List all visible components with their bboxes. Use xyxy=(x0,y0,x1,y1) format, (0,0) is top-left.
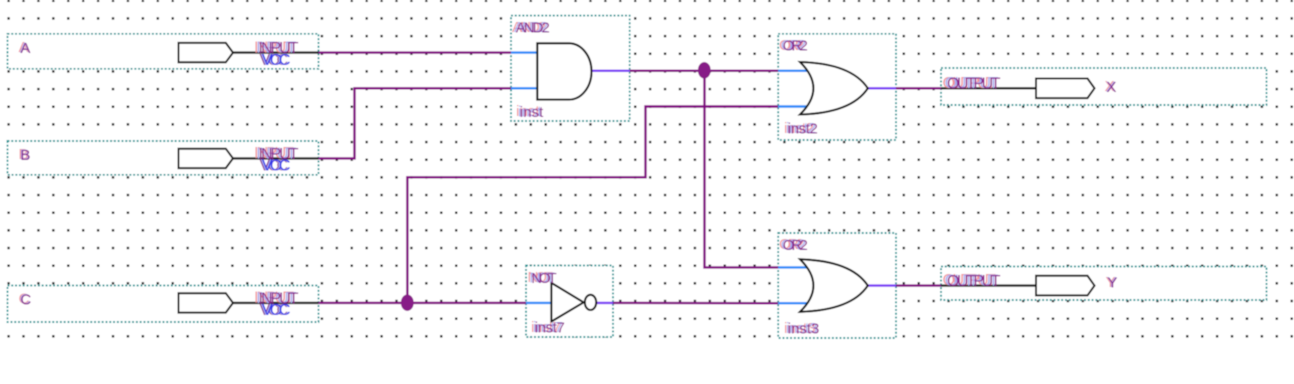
OR2 inst2 input stub upper (blue) xyxy=(778,70,809,72)
selection box output Y xyxy=(941,267,1267,301)
selection box input C xyxy=(8,286,319,323)
wire branch from C junction up to OR2 inst2 lower input xyxy=(407,107,778,303)
svg-text:OUTPUT: OUTPUT xyxy=(947,76,1001,93)
wire net C: input C to NOT input xyxy=(319,302,527,304)
NOT gate body xyxy=(551,283,583,322)
svg-text:inst: inst xyxy=(520,104,544,121)
output pin X arrow xyxy=(1036,79,1095,99)
AND2 input stub upper (blue) xyxy=(511,51,537,53)
AND2 output stub (violet) xyxy=(592,70,630,72)
NOT bubble xyxy=(585,295,596,310)
svg-text:AND2: AND2 xyxy=(516,20,550,37)
output pin Y arrow xyxy=(1036,276,1095,296)
input pin C arrow xyxy=(179,293,234,312)
OR2 inst2 gate body xyxy=(800,62,868,115)
wire net AND output to OR2 inst2 upper input xyxy=(630,70,779,72)
wire branch from junction down to OR2 inst3 upper input xyxy=(705,71,779,268)
selection box AND2 inst xyxy=(511,16,630,121)
OR2 inst3 input stub lower (blue) xyxy=(778,302,809,304)
input pin C symbol line xyxy=(233,302,319,304)
svg-text:B: B xyxy=(21,147,31,164)
selection box input B xyxy=(8,141,319,175)
selection box output X xyxy=(941,68,1267,105)
wire net B: input B to AND2 lower input xyxy=(319,88,512,158)
input pin B symbol line xyxy=(233,157,319,159)
svg-text:VCC: VCC xyxy=(262,302,291,319)
selection box OR2 inst2 xyxy=(778,34,896,140)
svg-text:OR2: OR2 xyxy=(783,38,808,55)
wire NOT output to OR2 inst3 lower input xyxy=(613,302,778,305)
wire OR2 inst2 output to output pin X xyxy=(896,87,941,89)
svg-text:OUTPUT: OUTPUT xyxy=(947,273,1001,290)
svg-text:A: A xyxy=(21,40,31,57)
wire OR2 inst3 output to output pin Y xyxy=(896,284,941,286)
wire net A: input A to AND2 upper input xyxy=(319,51,512,53)
svg-text:X: X xyxy=(1107,79,1117,96)
OR2 inst2 input stub lower (blue) xyxy=(778,105,809,107)
junction dot on C net xyxy=(401,295,414,311)
input pin B arrow xyxy=(179,149,234,168)
NOT output stub (violet) xyxy=(597,302,613,304)
OR2 inst3 gate body xyxy=(800,259,868,312)
AND2 input stub lower (blue) xyxy=(511,87,537,89)
svg-text:OR2: OR2 xyxy=(783,237,808,254)
NOT input stub (blue) xyxy=(526,302,551,304)
OR2 inst3 input stub upper (blue) xyxy=(778,266,809,268)
OR2 inst2 output stub (violet) xyxy=(868,87,896,89)
input pin A symbol line xyxy=(233,51,319,53)
svg-text:inst7: inst7 xyxy=(535,320,565,337)
AND2 gate body xyxy=(537,43,591,99)
selection box input A xyxy=(8,34,319,69)
OR2 inst3 output stub (violet) xyxy=(868,284,896,286)
svg-text:Y: Y xyxy=(1108,275,1118,292)
svg-text:VCC: VCC xyxy=(262,52,291,69)
svg-text:inst2: inst2 xyxy=(788,121,818,138)
selection box OR2 inst3 xyxy=(778,233,896,338)
svg-text:inst3: inst3 xyxy=(788,321,820,338)
svg-text:VCC: VCC xyxy=(262,158,291,175)
input pin A arrow xyxy=(179,43,234,62)
svg-text:NOT: NOT xyxy=(531,270,557,287)
output pin X symbol line xyxy=(941,87,1036,89)
junction dot on AND output net xyxy=(698,62,711,78)
selection box NOT inst7 xyxy=(526,266,613,338)
svg-text:C: C xyxy=(21,291,32,308)
output pin Y symbol line xyxy=(941,284,1036,286)
